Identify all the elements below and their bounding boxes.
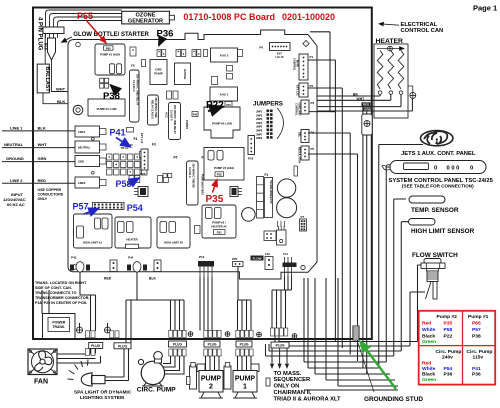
svg-text:CONTROL: CONTROL (293, 58, 297, 71)
svg-text:115v: 115v (473, 355, 484, 361)
svg-text:TRANSFORMER CONNECTOR,: TRANSFORMER CONNECTOR, (35, 296, 89, 300)
svg-text:(SEE TABLE FOR CONNECTION): (SEE TABLE FOR CONNECTION) (402, 184, 474, 189)
svg-text:RED: RED (104, 277, 112, 281)
svg-text:USE COPPER: USE COPPER (38, 188, 62, 192)
svg-text:P21: P21 (217, 231, 222, 235)
svg-text:TRIAD II & AURORA XLT: TRIAD II & AURORA XLT (274, 396, 342, 402)
svg-text:F4: F4 (134, 137, 138, 141)
svg-text:P36: P36 (157, 29, 174, 40)
svg-text:SEQUENCER: SEQUENCER (274, 377, 312, 383)
svg-text:BALLAST: BALLAST (44, 67, 50, 93)
svg-text:P22: P22 (226, 103, 231, 107)
svg-text:0: 0 (470, 165, 473, 171)
svg-text:PUMP #2 LOW: PUMP #2 LOW (212, 122, 232, 126)
svg-text:RED: RED (363, 103, 370, 107)
svg-text:PLUG: PLUG (173, 343, 182, 347)
svg-text:WHT: WHT (38, 142, 48, 147)
svg-text:P36: P36 (472, 372, 481, 378)
svg-text:1: 1 (243, 383, 247, 390)
svg-text:P35: P35 (217, 172, 222, 176)
svg-text:JMP5: JMP5 (256, 126, 263, 129)
svg-text:0201-100020: 0201-100020 (282, 12, 335, 22)
svg-text:P2: P2 (310, 84, 314, 88)
svg-text:NEUTRAL: NEUTRAL (4, 142, 24, 147)
svg-text:GROUNDING STUD: GROUNDING STUD (364, 396, 423, 403)
svg-text:Pump #2: Pump #2 (437, 314, 458, 320)
svg-text:JMP4: JMP4 (256, 122, 263, 125)
svg-text:CHAIRMAN II,: CHAIRMAN II, (274, 390, 312, 396)
svg-text:GRN: GRN (364, 108, 371, 112)
svg-text:P35: P35 (206, 194, 224, 205)
svg-text:P65: P65 (77, 11, 93, 21)
svg-text:01710-1008 PC Board: 01710-1008 PC Board (183, 12, 275, 22)
svg-text:240v: 240v (442, 355, 453, 361)
svg-text:F1: F1 (265, 173, 269, 177)
svg-text:PLUG: PLUG (276, 344, 285, 348)
svg-text:LINE2: LINE2 (78, 181, 86, 185)
svg-text:WHT: WHT (56, 87, 66, 92)
svg-text:PUMP #1 LOW: PUMP #1 LOW (97, 107, 117, 111)
svg-text:P38: P38 (472, 333, 481, 339)
svg-text:4 PIN PLUG: 4 PIN PLUG (37, 17, 43, 51)
svg-text:F8: F8 (131, 64, 135, 68)
svg-text:LINE 1: LINE 1 (10, 126, 23, 131)
svg-text:SPA LIGHT OR DYNAMIC: SPA LIGHT OR DYNAMIC (74, 389, 132, 395)
svg-text:LIG 40: LIG 40 (276, 55, 284, 59)
svg-text:P65: P65 (472, 320, 481, 326)
svg-text:25A 440VAC TIME RELAY: 25A 440VAC TIME RELAY (136, 74, 140, 105)
svg-text:P16: P16 (248, 157, 254, 161)
svg-text:P35: P35 (444, 320, 453, 326)
svg-text:WHT: WHT (357, 97, 366, 101)
svg-text:CIRC. PUMP: CIRC. PUMP (137, 387, 176, 394)
svg-text:PLUG: PLUG (118, 344, 127, 348)
svg-text:AUX 2: AUX 2 (220, 54, 229, 58)
svg-text:TRANS. CONNECTS TO: TRANS. CONNECTS TO (35, 291, 77, 295)
svg-text:RED: RED (38, 178, 47, 183)
svg-text:P54: P54 (127, 203, 143, 213)
svg-text:P7: P7 (301, 215, 305, 219)
svg-text:ONLY ON: ONLY ON (274, 384, 300, 390)
svg-text:DEL: DEL (298, 132, 302, 138)
svg-text:GENERATOR: GENERATOR (128, 19, 163, 25)
svg-text:CONTROL CAN: CONTROL CAN (401, 28, 444, 34)
svg-text:TW-AC: TW-AC (121, 147, 129, 150)
svg-text:JMP7: JMP7 (256, 133, 263, 136)
svg-text:P20: P20 (232, 257, 238, 261)
svg-text:LIGHTING SYSTEM: LIGHTING SYSTEM (80, 395, 124, 401)
svg-text:GROUND: GROUND (6, 156, 24, 161)
svg-text:P6: P6 (259, 46, 263, 50)
svg-text:FAN: FAN (34, 379, 48, 386)
svg-text:P54: P54 (444, 366, 453, 372)
svg-text:Pump #1: Pump #1 (468, 314, 489, 320)
svg-text:CONTROL: CONTROL (295, 103, 299, 116)
svg-text:TRANSFORMER P18: TRANSFORMER P18 (269, 180, 272, 204)
svg-text:White: White (422, 327, 436, 333)
svg-text:P41: P41 (110, 127, 126, 137)
svg-text:PUMP3/HEATER2: PUMP3/HEATER2 (201, 174, 204, 195)
svg-text:CLASS G: CLASS G (170, 110, 173, 121)
svg-text:EXT. L10: EXT. L10 (140, 133, 143, 144)
svg-text:HIGH LIMIT #2: HIGH LIMIT #2 (164, 241, 183, 245)
svg-text:NEUTRAL: NEUTRAL (78, 145, 91, 149)
svg-text:F10: F10 (265, 252, 270, 256)
svg-text:F3: F3 (152, 143, 156, 147)
svg-text:F14: F14 (283, 252, 288, 256)
svg-text:Circ. Pump: Circ. Pump (436, 349, 462, 355)
svg-text:P65: P65 (106, 46, 111, 50)
svg-text:60 HZ AC: 60 HZ AC (7, 202, 25, 207)
svg-text:F5: F5 (174, 156, 178, 160)
svg-text:P44: P44 (128, 256, 134, 260)
svg-text:ELECTRICAL: ELECTRICAL (401, 22, 438, 28)
svg-text:Green: Green (422, 339, 436, 345)
svg-text:Red: Red (422, 320, 431, 326)
svg-text:TO MASS.: TO MASS. (274, 371, 302, 377)
svg-text:Page 1: Page 1 (473, 4, 497, 13)
svg-text:BLK: BLK (149, 277, 157, 281)
svg-text:P13: P13 (199, 255, 205, 259)
svg-text:SIDE OF CONT. CAN.: SIDE OF CONT. CAN. (35, 286, 72, 290)
svg-text:P58: P58 (444, 327, 453, 333)
svg-text:PUMP: PUMP (235, 375, 256, 382)
svg-text:JMP6: JMP6 (256, 130, 263, 133)
svg-text:P5: P5 (311, 147, 315, 151)
svg-text:Black: Black (422, 372, 435, 378)
svg-text:P1: P1 (310, 55, 314, 59)
svg-text:CLASS G: CLASS G (188, 167, 191, 178)
svg-text:GRN: GRN (38, 156, 47, 161)
svg-text:Green: Green (422, 377, 436, 383)
svg-text:PLUG: PLUG (91, 344, 100, 348)
svg-text:P36: P36 (444, 372, 453, 378)
svg-text:ONLY: ONLY (38, 197, 48, 201)
svg-text:LINE 2: LINE 2 (10, 178, 23, 183)
svg-text:ACC: ACC (165, 112, 169, 118)
svg-text:CLASS G: CLASS G (132, 80, 136, 92)
svg-text:PUMP #1 HIGH: PUMP #1 HIGH (100, 53, 120, 57)
svg-text:2: 2 (209, 383, 213, 390)
svg-text:JETS 1 AUX. CONT. PANEL: JETS 1 AUX. CONT. PANEL (401, 151, 476, 157)
svg-text:TRANS. LOCATED ON RIGHT: TRANS. LOCATED ON RIGHT (35, 281, 87, 285)
svg-text:P57: P57 (73, 202, 89, 212)
svg-text:P38: P38 (103, 91, 120, 102)
svg-text:FLOW: FLOW (253, 257, 262, 261)
svg-text:BLK: BLK (57, 99, 65, 104)
svg-text:PUMP2: PUMP2 (185, 120, 189, 129)
svg-text:GLOW BOTTLE/ STARTER: GLOW BOTTLE/ STARTER (73, 32, 149, 38)
svg-text:PUMP #2 HIGH: PUMP #2 HIGH (214, 166, 234, 170)
svg-text:LINE1: LINE1 (78, 130, 86, 134)
svg-text:P18, P20 IN CENTER OF PCB.: P18, P20 IN CENTER OF PCB. (35, 301, 87, 305)
svg-text:EXT. LIG: EXT. LIG (296, 85, 300, 96)
svg-text:AUX 1: AUX 1 (220, 93, 229, 97)
svg-text:Black: Black (422, 333, 435, 339)
svg-text:P3: P3 (311, 101, 315, 105)
svg-text:P40: P40 (193, 114, 198, 117)
svg-text:PUMP: PUMP (154, 72, 162, 76)
svg-text:CONDUCTORS: CONDUCTORS (38, 193, 64, 197)
svg-text:P22: P22 (444, 333, 453, 339)
svg-text:JMP3: JMP3 (256, 118, 263, 121)
svg-text:EXT.: EXT. (277, 52, 283, 56)
svg-text:PLUG: PLUG (240, 343, 249, 347)
svg-text:BK: BK (353, 93, 358, 97)
svg-text:Red: Red (422, 361, 431, 367)
svg-text:POWER: POWER (52, 321, 65, 325)
svg-text:TEMP. SENSOR: TEMP. SENSOR (411, 207, 459, 214)
svg-text:TRANS.: TRANS. (52, 325, 65, 329)
svg-text:JMP8: JMP8 (256, 137, 263, 140)
svg-text:HIGH LIMIT #1: HIGH LIMIT #1 (83, 241, 102, 245)
svg-text:HIGH LIMIT SENSOR: HIGH LIMIT SENSOR (411, 228, 475, 235)
svg-text:PUMP: PUMP (201, 375, 222, 382)
svg-text:JUMPERS: JUMPERS (253, 101, 283, 108)
svg-text:JMP2: JMP2 (256, 114, 263, 117)
svg-text:Circ. Pump: Circ. Pump (467, 349, 493, 355)
svg-text:RELAY CLASS G: RELAY CLASS G (151, 100, 154, 119)
svg-text:PLUG: PLUG (208, 343, 217, 347)
svg-text:White: White (422, 366, 436, 372)
svg-text:0: 0 (434, 165, 437, 171)
svg-text:P57: P57 (472, 327, 481, 333)
svg-text:REGULATOR: REGULATOR (298, 147, 302, 163)
svg-text:0 0 0: 0 0 0 (447, 165, 460, 171)
svg-text:P43: P43 (71, 256, 77, 260)
svg-text:P41: P41 (472, 366, 481, 372)
svg-text:HEATER #2: HEATER #2 (211, 225, 227, 229)
svg-text:OZONE: OZONE (183, 69, 187, 79)
svg-text:JMP1: JMP1 (256, 111, 263, 114)
svg-text:HEATER: HEATER (126, 238, 137, 242)
svg-text:BLK: BLK (38, 126, 46, 131)
svg-text:P23: P23 (140, 172, 146, 176)
svg-text:GND: GND (78, 159, 84, 163)
